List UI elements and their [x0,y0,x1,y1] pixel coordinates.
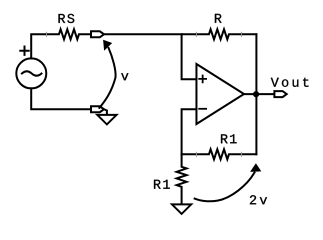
label R1 [154,180,170,189]
pin (input terminal, top) [91,31,104,37]
voltage source V1 (AC) [16,58,46,88]
pin (input terminal, bottom) [91,106,104,112]
label Vout [271,78,309,87]
op-amp - input label [199,108,206,110]
wire: op-amp output [244,93,274,95]
wire: right rail (top to R1 row) [255,34,257,154]
ground (input side) [97,115,116,125]
pin Vout terminal [274,91,286,97]
label R [215,14,222,23]
resistor RS [46,29,91,39]
arrowhead of 2v [250,163,261,172]
label 2v [250,195,267,204]
label RS [59,14,75,23]
wire: top pin to feedback node [104,33,196,35]
annotation arrow 2v (curved) [195,173,255,202]
junction dot (output node) [253,91,259,97]
wire: op-amp - input to left rail [182,109,197,154]
label R1 [221,134,237,143]
annotation arrow v (curved) [99,48,115,108]
wire: branch down to op-amp + input [182,34,197,79]
endpoint tick marks [46,32,241,157]
op-amp + input label [199,76,206,83]
resistor R1 (horizontal feedback) [182,149,257,159]
resistor R [196,29,241,39]
plus polarity mark [20,47,28,55]
wire: source top to RS [31,34,46,58]
ground (bottom) [172,204,191,214]
arrowhead of v [103,40,112,51]
wire: bottom pin to ground elbow [104,109,107,115]
wire: R to right rail [241,33,256,35]
label v [121,73,128,80]
op-amp U1 [196,64,244,124]
resistor R1 (vertical to ground) [177,154,187,204]
wire: source bottom to lower pin [31,88,91,109]
sine symbol inside source [22,71,42,75]
